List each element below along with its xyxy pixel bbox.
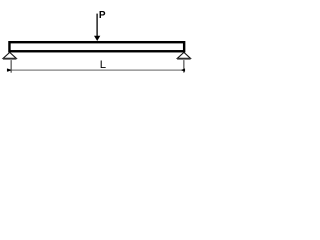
svg-text:P: P bbox=[99, 10, 106, 21]
svg-text:L: L bbox=[100, 59, 106, 71]
